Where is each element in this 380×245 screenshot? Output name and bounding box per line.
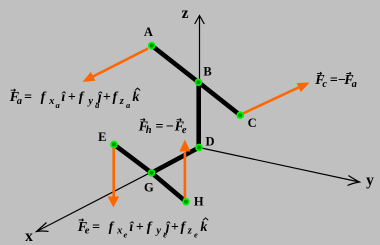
svg-text:E: E: [98, 130, 106, 144]
svg-text:=: =: [24, 90, 32, 105]
svg-text:e: e: [194, 230, 198, 240]
rod G-D: [152, 148, 199, 173]
svg-text:h: h: [146, 125, 152, 136]
svg-text:G: G: [144, 181, 154, 195]
node B: [196, 79, 202, 85]
svg-text:e: e: [182, 125, 187, 136]
equation Fe = fxe i + fye j + fze k: [79, 219, 84, 222]
svg-text:H: H: [194, 195, 204, 209]
equation Fa = fxa i + fya j + fza k: [11, 89, 16, 92]
node C: [237, 112, 243, 118]
svg-text:−: −: [166, 119, 174, 134]
svg-text:A: A: [144, 25, 153, 39]
node A: [149, 43, 155, 49]
equation Fh = -Fe: [140, 118, 145, 121]
node H: [183, 199, 189, 205]
svg-text:+: +: [136, 220, 144, 235]
svg-text:y: y: [366, 172, 374, 189]
svg-text:y: y: [154, 226, 161, 237]
rod B-D: [196, 82, 201, 147]
z axis: [195, 16, 205, 148]
svg-text:=: =: [155, 119, 163, 134]
svg-text:x: x: [116, 226, 122, 237]
svg-text:x: x: [25, 228, 33, 245]
svg-text:B: B: [203, 65, 211, 79]
svg-text:C: C: [248, 116, 257, 130]
svg-text:y: y: [86, 96, 93, 107]
svg-text:+: +: [68, 90, 76, 105]
svg-text:e: e: [124, 230, 128, 240]
svg-text:k: k: [132, 90, 139, 105]
svg-text:D: D: [205, 135, 214, 149]
force arrow Fa at A: [80, 49, 148, 87]
y axis: [199, 148, 360, 186]
x axis: [37, 148, 200, 232]
svg-text:a: a: [17, 96, 22, 107]
rod A-B: [152, 46, 199, 83]
svg-text:=: =: [92, 220, 100, 235]
svg-text:k: k: [200, 220, 207, 235]
svg-text:a: a: [352, 79, 357, 90]
node E: [111, 142, 117, 148]
equation Fc = -Fa: [317, 72, 322, 75]
svg-text:c: c: [322, 79, 327, 90]
svg-text:=: =: [330, 73, 338, 88]
rod G-H: [152, 173, 186, 202]
svg-text:+: +: [103, 90, 111, 105]
force arrow Fe at E (down): [108, 147, 119, 208]
node D: [196, 145, 202, 151]
svg-text:+: +: [171, 220, 179, 235]
force arrow Fc at C: [243, 78, 312, 114]
svg-text:x: x: [48, 96, 54, 107]
svg-text:z: z: [182, 5, 189, 22]
force arrow Fh at H (up): [179, 140, 190, 202]
node G: [149, 170, 155, 176]
svg-text:e: e: [85, 226, 90, 237]
rod B-C: [198, 82, 240, 115]
rod E-G: [114, 145, 152, 173]
